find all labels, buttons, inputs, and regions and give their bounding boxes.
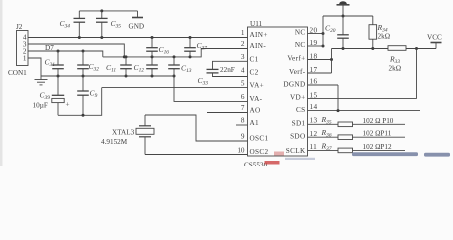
wire R35 to P10 [353,123,406,125]
electrolytic capacitor C39 [52,76,64,115]
pin 16 stub [308,84,339,86]
wire VD+ [308,98,417,100]
svg-text:6: 6 [241,93,245,101]
junction pin19 [322,45,325,48]
Verf tie vertical wire [331,49,333,74]
svg-text:7: 7 [241,104,245,112]
svg-text:5: 5 [241,79,245,87]
wire U11 pin8 A1 stub [236,124,248,126]
capacitor C33 [207,61,248,76]
svg-text:VCC: VCC [427,34,442,42]
capacitor C37 [184,38,196,57]
svg-text:DGND: DGND [283,80,305,88]
wire J2 pin1 to ground rail [28,58,41,76]
svg-text:CS: CS [296,106,306,114]
svg-text:22nF: 22nF [220,66,235,74]
capacitor C16 [146,38,158,57]
svg-text:8: 8 [241,117,245,125]
junction on AIN+ at C34 [78,36,81,39]
svg-text:Verf-: Verf- [289,68,306,76]
pin 18 stub [308,59,332,61]
capacitor C34 [74,11,86,38]
capacitor C12 [146,57,158,76]
svg-text:AIN-: AIN- [250,42,267,50]
svg-text:3: 3 [241,53,245,61]
pin 19 stub [308,45,324,47]
resistor R36 [338,135,353,140]
junction ground rail end [173,75,176,78]
junction on AIN+ at C16 [151,36,154,39]
wire VA+ to U11 pin5 [102,87,248,89]
wire rail to U11 pin6 VA- [174,76,248,101]
wire U11 pin7 A0 stub [207,112,248,114]
top supply wire [323,15,373,17]
wire AIN- rail [103,49,248,57]
wire SCLK to R37 [308,149,339,151]
wire CS [308,110,421,112]
svg-text:10: 10 [237,146,245,154]
watermark artifact blue dash 2 [424,153,450,157]
junction rail at C32/C9 [82,75,85,78]
capacitor C20 [337,16,349,49]
svg-text:1: 1 [241,29,245,37]
junction rail C20 [342,47,345,50]
junction top wire at C35 [100,9,103,12]
reference rail [332,48,389,50]
svg-text:CON1: CON1 [8,69,27,77]
resistor R35 [338,122,353,127]
svg-text:VA+: VA+ [250,81,265,89]
VD+ drop wire [416,49,418,99]
wire R37 to P12 [353,149,406,151]
svg-text:SD1: SD1 [292,119,306,127]
svg-text:OSC1: OSC1 [250,135,269,143]
junction rail at C12 [151,75,154,78]
wire R33 to VCC [406,48,436,50]
junction bottom rail at C9 [82,114,85,117]
svg-text:2kΩ: 2kΩ [378,33,391,41]
svg-text:VD+: VD+ [290,94,306,102]
watermark artifact red near CS5530 [265,161,280,165]
svg-text:C2: C2 [250,69,259,77]
svg-text:OSC2: OSC2 [250,148,269,156]
svg-text:16: 16 [310,78,318,86]
crystal circuit top wire to OSC1 [145,115,248,141]
resistor R33 [388,46,406,51]
junction D7 net at C31 [57,50,60,53]
svg-text:13: 13 [310,116,318,124]
junction pin20 [322,32,325,35]
junction VD+ drop [415,47,418,50]
VCC symbol [431,43,442,49]
svg-text:D7: D7 [45,44,54,52]
svg-text:2: 2 [241,40,245,48]
connector J2 body [17,31,29,66]
IC U11 body [248,27,308,156]
svg-text:J2: J2 [16,23,23,31]
svg-text:Verf+: Verf+ [287,55,305,63]
top GND wire [79,10,137,12]
svg-text:SCLK: SCLK [286,147,306,155]
power flag VD [337,1,350,16]
junction on AIN+ at C37 [189,36,192,39]
crystal XTAL3 [136,115,154,155]
svg-text:14: 14 [310,103,318,111]
junction AIN- rail at C37 [189,55,192,58]
svg-text:4.9152M: 4.9152M [101,138,128,146]
svg-text:NC: NC [295,29,306,37]
svg-text:4: 4 [241,67,245,75]
NC tie vertical wire [322,16,324,46]
junction CS/DGND [337,109,340,112]
junction rail at C11 [125,75,128,78]
svg-text:102 Ω P10: 102 Ω P10 [363,117,394,125]
svg-text:10µF: 10µF [33,102,48,110]
svg-text:C1: C1 [250,56,259,64]
svg-text:1: 1 [23,54,27,62]
junction on AIN+ at C35 [100,36,103,39]
capacitor C31 [52,51,64,76]
wire J2 pin4 to U11 pin1 (AIN+ net) [28,37,248,39]
svg-text:GND: GND [129,23,145,31]
watermark artifact pink near SCLK [274,152,284,156]
watermark artifact faint line under SCLK [285,158,315,160]
ground rail [41,75,174,77]
junction rail at C31 [57,75,60,78]
svg-text:12: 12 [310,130,318,138]
resistor R34 [369,16,377,49]
junction D7 net at C32 [82,50,85,53]
svg-text:102 ΩP11: 102 ΩP11 [363,130,392,138]
capacitor C35 [96,11,108,38]
svg-text:VA-: VA- [250,95,263,103]
wire SD1 to R35 [308,123,339,125]
svg-text:+: + [66,101,70,109]
crystal bottom wire to OSC2 [145,154,248,156]
capacitor C32 [77,51,89,76]
capacitor C11 [120,57,132,76]
pin 20 stub [308,33,324,35]
watermark artifact blue dash 1 [352,152,418,156]
svg-text:CS5530: CS5530 [244,161,268,166]
svg-text:102 ΩP12: 102 ΩP12 [363,143,393,151]
svg-text:NC: NC [295,41,306,49]
scan edge band [0,0,3,166]
wire SDO to R36 [308,136,339,138]
svg-text:2kΩ: 2kΩ [389,65,402,73]
wire R36 to P11 [353,136,406,138]
svg-text:AIN+: AIN+ [250,31,268,39]
svg-text:SDO: SDO [290,132,305,140]
junction rail R34 [371,47,374,50]
capacitor C13 [168,57,180,76]
junction AIN- rail at C11 [125,55,128,58]
svg-text:9: 9 [241,133,245,141]
DGND drop wire [337,85,339,111]
junction pin18 [330,58,333,61]
junction AIN- rail at pin3 drop [123,55,126,58]
svg-text:AO: AO [250,106,261,114]
junction AIN- rail at C13 [173,55,176,58]
GND symbol [132,11,143,18]
svg-text:XTAL3: XTAL3 [112,129,135,137]
junction AIN- rail at C12/C16 [151,55,154,58]
resistor R37 [338,148,353,153]
svg-text:A1: A1 [250,119,260,127]
svg-text:11: 11 [310,143,318,151]
ground symbol [35,76,48,85]
bottom analog rail [58,88,102,116]
wire J2 pin2 (D7 net) [28,51,103,57]
junction supply/C20 [342,15,345,18]
wire J2 pin3 to AIN- rail [28,44,124,57]
capacitor C9 [77,76,89,115]
pin 17 stub [308,72,332,74]
